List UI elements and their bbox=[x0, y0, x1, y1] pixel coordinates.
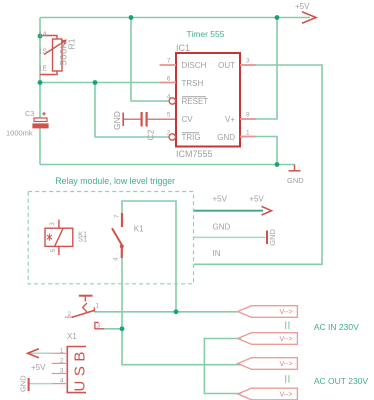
svg-text:V-->: V--> bbox=[279, 336, 292, 343]
svg-text:3: 3 bbox=[246, 58, 250, 65]
svg-text:8: 8 bbox=[246, 112, 250, 119]
svg-text:IN: IN bbox=[213, 249, 221, 258]
svg-text:3: 3 bbox=[97, 323, 101, 330]
svg-text:V-->: V--> bbox=[279, 309, 292, 316]
svg-text:V-->: V--> bbox=[279, 392, 292, 399]
svg-text:+5V: +5V bbox=[213, 194, 228, 203]
svg-text:+5V: +5V bbox=[249, 194, 264, 203]
svg-text:IC1: IC1 bbox=[176, 43, 190, 53]
svg-text:USB: USB bbox=[72, 347, 89, 391]
svg-text:1: 1 bbox=[246, 130, 250, 137]
svg-text:GND: GND bbox=[112, 111, 122, 130]
svg-text:5: 5 bbox=[167, 112, 171, 119]
svg-text:ICM7555: ICM7555 bbox=[176, 149, 213, 159]
svg-text:+5V: +5V bbox=[31, 363, 46, 372]
svg-text:5: 5 bbox=[50, 248, 57, 252]
svg-text:1S: 1S bbox=[39, 49, 48, 56]
svg-text:GND: GND bbox=[287, 176, 304, 185]
svg-text:+5V: +5V bbox=[295, 2, 310, 11]
svg-text:V-->: V--> bbox=[279, 361, 292, 368]
svg-text:4: 4 bbox=[167, 94, 171, 101]
svg-text:1000mk: 1000mk bbox=[6, 129, 33, 138]
svg-text:RESET: RESET bbox=[182, 97, 209, 106]
svg-text:DISCH: DISCH bbox=[182, 61, 207, 70]
svg-text:K1: K1 bbox=[134, 225, 144, 234]
svg-text:C2: C2 bbox=[146, 129, 156, 140]
svg-text:S1: S1 bbox=[78, 235, 87, 244]
svg-text:1: 1 bbox=[96, 302, 100, 309]
svg-text:2: 2 bbox=[68, 311, 72, 318]
svg-text:3: 3 bbox=[49, 222, 56, 226]
svg-text:TRIG: TRIG bbox=[182, 133, 201, 142]
svg-text:2: 2 bbox=[167, 130, 171, 137]
svg-text:AC IN 230V: AC IN 230V bbox=[314, 322, 359, 332]
svg-text:6: 6 bbox=[167, 76, 171, 83]
svg-text:2: 2 bbox=[60, 357, 64, 364]
svg-text:1E: 1E bbox=[39, 66, 48, 73]
svg-text:7: 7 bbox=[167, 58, 171, 65]
svg-text:V+: V+ bbox=[225, 115, 235, 124]
svg-text:TRSH: TRSH bbox=[182, 79, 204, 88]
svg-text:CV: CV bbox=[182, 115, 194, 124]
svg-text:AC OUT 230V: AC OUT 230V bbox=[314, 376, 369, 386]
svg-text:Relay module, low level trigge: Relay module, low level trigger bbox=[55, 176, 175, 186]
svg-text:R1: R1 bbox=[67, 38, 77, 49]
svg-text:GND: GND bbox=[213, 222, 231, 231]
svg-text:7: 7 bbox=[113, 214, 120, 218]
svg-text:3: 3 bbox=[60, 368, 64, 375]
svg-text:4: 4 bbox=[113, 257, 120, 261]
svg-text:Timer 555: Timer 555 bbox=[187, 29, 225, 39]
svg-text:4: 4 bbox=[60, 378, 64, 385]
svg-text:GND: GND bbox=[217, 133, 235, 142]
svg-text:1A: 1A bbox=[39, 32, 48, 39]
svg-text:C3: C3 bbox=[25, 109, 35, 118]
svg-text:X1: X1 bbox=[67, 332, 77, 341]
svg-text:1: 1 bbox=[60, 347, 64, 354]
svg-text:GND: GND bbox=[268, 228, 277, 245]
svg-text:GND: GND bbox=[19, 375, 28, 392]
svg-text:OUT: OUT bbox=[218, 61, 235, 70]
